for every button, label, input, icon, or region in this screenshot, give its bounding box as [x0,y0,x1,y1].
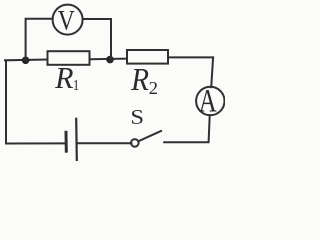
node: junction dot right (voltmeter tap) [106,56,114,64]
wire: middle rail right segment to top-right corner [168,56,213,58]
label R2 (resistor value) [131,69,157,94]
wire: voltmeter branch right horizontal and vertical [83,19,111,59]
battery cell: long positive plate [75,119,78,161]
battery cell: short negative plate [65,132,68,151]
wire: bottom-left from battery to left corner [6,142,65,144]
label S (switch) [132,110,143,124]
label V (voltmeter letter) [58,11,74,30]
wire: left vertical side [5,61,7,144]
node: junction dot left (voltmeter tap) [22,57,30,65]
wire: middle rail left segment [5,59,48,62]
label R1 (resistor value) [55,68,79,90]
voltmeter V (meter circle) [53,5,83,35]
switch S blade [138,131,161,141]
resistor R1 [48,51,90,65]
wire: voltmeter branch left vertical [26,19,53,60]
switch S pivot contact [131,139,139,147]
wire: middle rail between R1 and R2 [90,58,128,61]
wire: bottom from switch to battery [77,142,131,144]
wire: right side upper (corner to ammeter) [211,57,213,87]
resistor R2 [127,50,168,64]
label A (ammeter letter) [199,90,216,111]
wire: right side lower (ammeter to bottom corner) [164,115,210,142]
ammeter A (meter circle) [196,87,224,115]
